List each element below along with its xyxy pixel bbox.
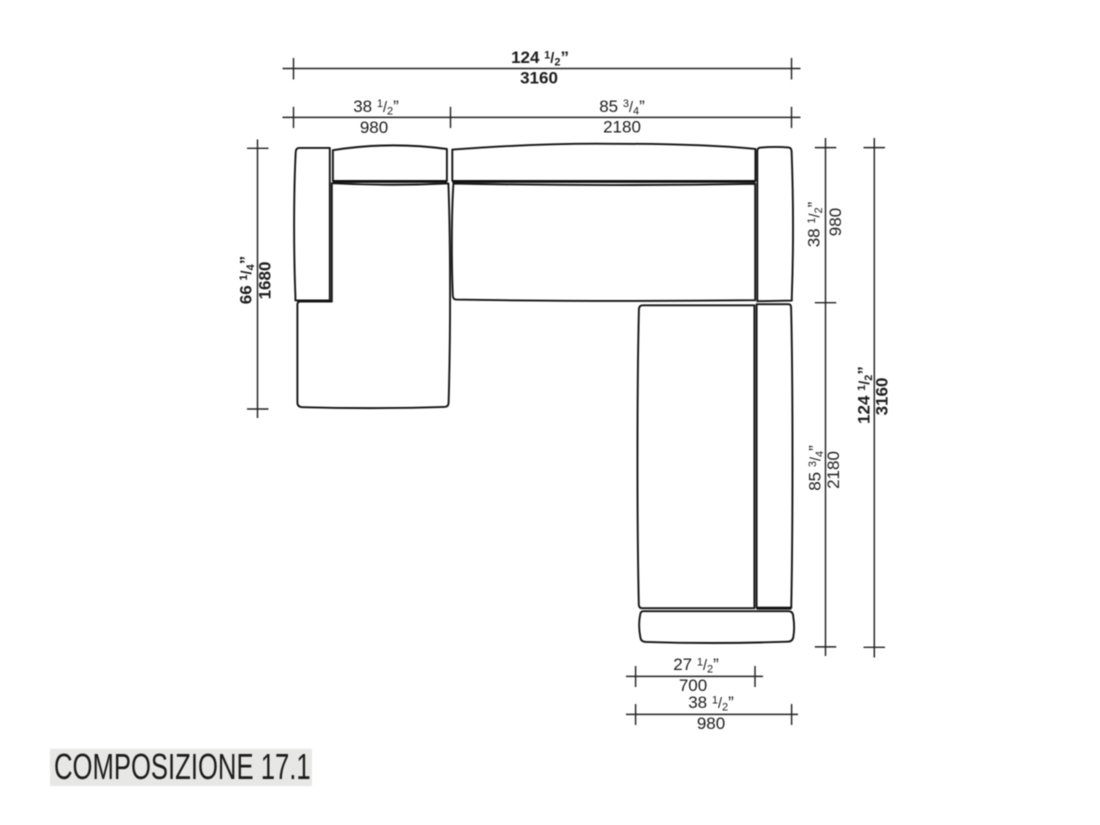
svg-text:980: 980: [697, 714, 725, 733]
dimension line top: 124 1/2" / 3160: [283, 58, 801, 80]
chaise backrest front thick edge: [333, 180, 447, 183]
svg-text:124 1/2”: 124 1/2”: [511, 48, 569, 69]
svg-text:COMPOSIZIONE 17.1: COMPOSIZIONE 17.1: [54, 747, 311, 787]
right module backrest (vertical strip): [757, 304, 793, 608]
dimension line bottom first: 27 1/2" / 700: [626, 666, 763, 687]
dimension line right inner: 38 1/2"/980 + 85 3/4"/2180: [815, 138, 837, 656]
svg-text:38 1/2”: 38 1/2”: [805, 201, 826, 247]
top sofa right armrest: [757, 147, 793, 301]
dimension line left: 66 1/4" / 1680: [247, 139, 269, 418]
chaise seat (left module): [297, 183, 450, 408]
svg-text:3160: 3160: [520, 68, 558, 87]
bottom armrest of right module: [639, 611, 794, 643]
caption background box: [50, 749, 312, 786]
top sofa seat: [452, 184, 755, 301]
svg-text:2180: 2180: [603, 117, 641, 136]
dimension line second: 38 1/2"/980 + 85 3/4"/2180: [283, 107, 801, 128]
svg-text:38 1/2”: 38 1/2”: [353, 97, 399, 118]
caption text COMPOSIZIONE 17.1: [54, 747, 311, 787]
svg-text:2180: 2180: [824, 451, 843, 489]
chaise backrest: [333, 145, 447, 181]
dimension line bottom second: 38 1/2" / 980: [626, 704, 798, 725]
top sofa backrest: [452, 144, 755, 181]
svg-text:27 1/2”: 27 1/2”: [673, 655, 719, 676]
svg-text:3160: 3160: [873, 378, 892, 416]
svg-text:980: 980: [826, 208, 845, 236]
svg-text:980: 980: [360, 118, 388, 137]
dimension line right outer: 124 1/2" / 3160: [864, 138, 886, 658]
right module backrest front thick edge: [757, 607, 792, 610]
top sofa backrest front thick edge: [452, 180, 755, 183]
chaise left armrest: [294, 148, 330, 301]
svg-text:38 1/2”: 38 1/2”: [688, 693, 734, 714]
svg-text:85 3/4”: 85 3/4”: [806, 445, 827, 491]
svg-text:1680: 1680: [256, 262, 275, 300]
right module seat (vertical): [637, 305, 754, 608]
svg-text:85 3/4”: 85 3/4”: [599, 97, 645, 118]
